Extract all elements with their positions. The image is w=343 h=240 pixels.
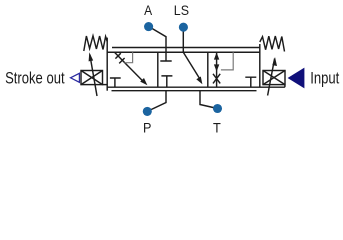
stroke-out open triangle bbox=[71, 73, 80, 82]
port T wire bbox=[200, 91, 218, 109]
port P wire bbox=[147, 91, 166, 112]
node LS dot bbox=[179, 23, 188, 32]
node A dot bbox=[144, 22, 153, 31]
cell1 throttle tick 1 bbox=[115, 53, 120, 58]
svg-text:T: T bbox=[213, 120, 221, 136]
wire valve body right edge bbox=[259, 44, 261, 87]
cell3 variable throttle X bbox=[213, 74, 220, 84]
wire bottom housing rail bbox=[112, 90, 257, 92]
input solid triangle bbox=[288, 68, 305, 89]
svg-text:P: P bbox=[143, 120, 151, 136]
port A wire bbox=[152, 28, 166, 52]
blocked port T2 (A port in neutral) bbox=[160, 52, 171, 61]
wire jog up to right pilot box corner bbox=[284, 85, 286, 88]
svg-text:A: A bbox=[144, 2, 153, 18]
wire top housing rail bbox=[112, 47, 259, 49]
cell1 throttle tick 2 bbox=[119, 58, 124, 63]
wire valve body left edge bbox=[106, 38, 108, 91]
node T dot bbox=[213, 104, 222, 113]
svg-text:LS: LS bbox=[174, 2, 189, 18]
pilot box right bbox=[263, 71, 285, 85]
pilot box left X bbox=[81, 71, 103, 85]
wire pilot box left bottom extension bbox=[103, 84, 108, 86]
spring right bbox=[260, 36, 285, 52]
gray notch bracket cell1 bbox=[125, 52, 133, 62]
port LS wire bbox=[182, 31, 184, 52]
wire valve body top edge bbox=[107, 51, 260, 53]
gray notch bracket cell3 bbox=[221, 52, 233, 70]
node P dot bbox=[143, 107, 152, 116]
blocked port T3 (P port in neutral) bbox=[161, 76, 172, 87]
pilot box right X bbox=[263, 71, 285, 85]
pilot arrow left bbox=[90, 55, 97, 97]
wire cell divider 1 bbox=[157, 52, 159, 87]
svg-text:Stroke out: Stroke out bbox=[5, 69, 65, 88]
cell3 vertical flow path bbox=[216, 52, 218, 87]
spring left bbox=[84, 36, 107, 51]
cell3 arrowhead down bbox=[214, 64, 219, 71]
LS drain diagonal arrow (middle cell) bbox=[183, 52, 199, 78]
wire cell divider 2 bbox=[207, 52, 209, 87]
wire valve body bottom edge bbox=[107, 86, 285, 88]
cell1 flow arrow diagonal bbox=[115, 52, 144, 82]
pilot box left bbox=[81, 71, 103, 85]
pilot arrow right bbox=[268, 59, 275, 96]
svg-text:Input: Input bbox=[310, 69, 339, 88]
blocked port T4 (right cell) bbox=[245, 77, 256, 87]
blocked port T1 (left cell bottom) bbox=[110, 78, 121, 87]
cell3 arrowhead up bbox=[214, 52, 219, 59]
